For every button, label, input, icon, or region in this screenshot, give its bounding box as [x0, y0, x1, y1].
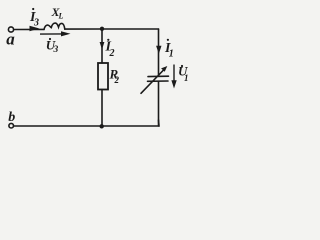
svg-text:1: 1 — [169, 48, 174, 59]
terminal a — [8, 27, 13, 32]
wire junction to top-right corner — [102, 28, 159, 30]
capacitor C1 lower plate — [148, 80, 169, 82]
wire middle branch upper (junction to resistor) — [101, 29, 103, 63]
capacitor variable arrow shaft — [141, 69, 165, 94]
svg-text:1: 1 — [184, 73, 189, 83]
bottom rail wire — [14, 120, 159, 126]
terminal b — [9, 123, 14, 128]
current arrow I2 head — [100, 42, 105, 50]
wire a to inductor — [14, 28, 44, 30]
wire right branch lower (capacitor to bottom rail) — [158, 82, 160, 126]
svg-text:b: b — [8, 110, 15, 125]
junction node bottom — [100, 124, 104, 128]
inductor XL coil — [44, 23, 65, 29]
current arrow I1 head — [156, 46, 161, 54]
current arrow I3 head — [30, 26, 40, 32]
svg-text:3: 3 — [33, 18, 39, 29]
wire middle branch lower (resistor to bottom rail) — [101, 90, 103, 127]
svg-text:3: 3 — [53, 45, 59, 55]
junction node top — [100, 27, 104, 31]
capacitor variable arrow head — [161, 66, 167, 72]
svg-text:2: 2 — [109, 48, 115, 59]
voltage arrow U3 (shaft+head) — [40, 33, 63, 35]
svg-text:L: L — [58, 12, 64, 21]
wire inductor to junction — [65, 28, 102, 30]
voltage arrow U1 (shaft+head) — [173, 65, 175, 82]
capacitor C1 upper plate — [148, 75, 169, 77]
svg-text:2: 2 — [114, 75, 120, 85]
resistor R2 body — [98, 63, 108, 90]
wire right branch upper (corner down to capacitor) — [158, 29, 160, 76]
svg-text:a: a — [6, 29, 15, 48]
